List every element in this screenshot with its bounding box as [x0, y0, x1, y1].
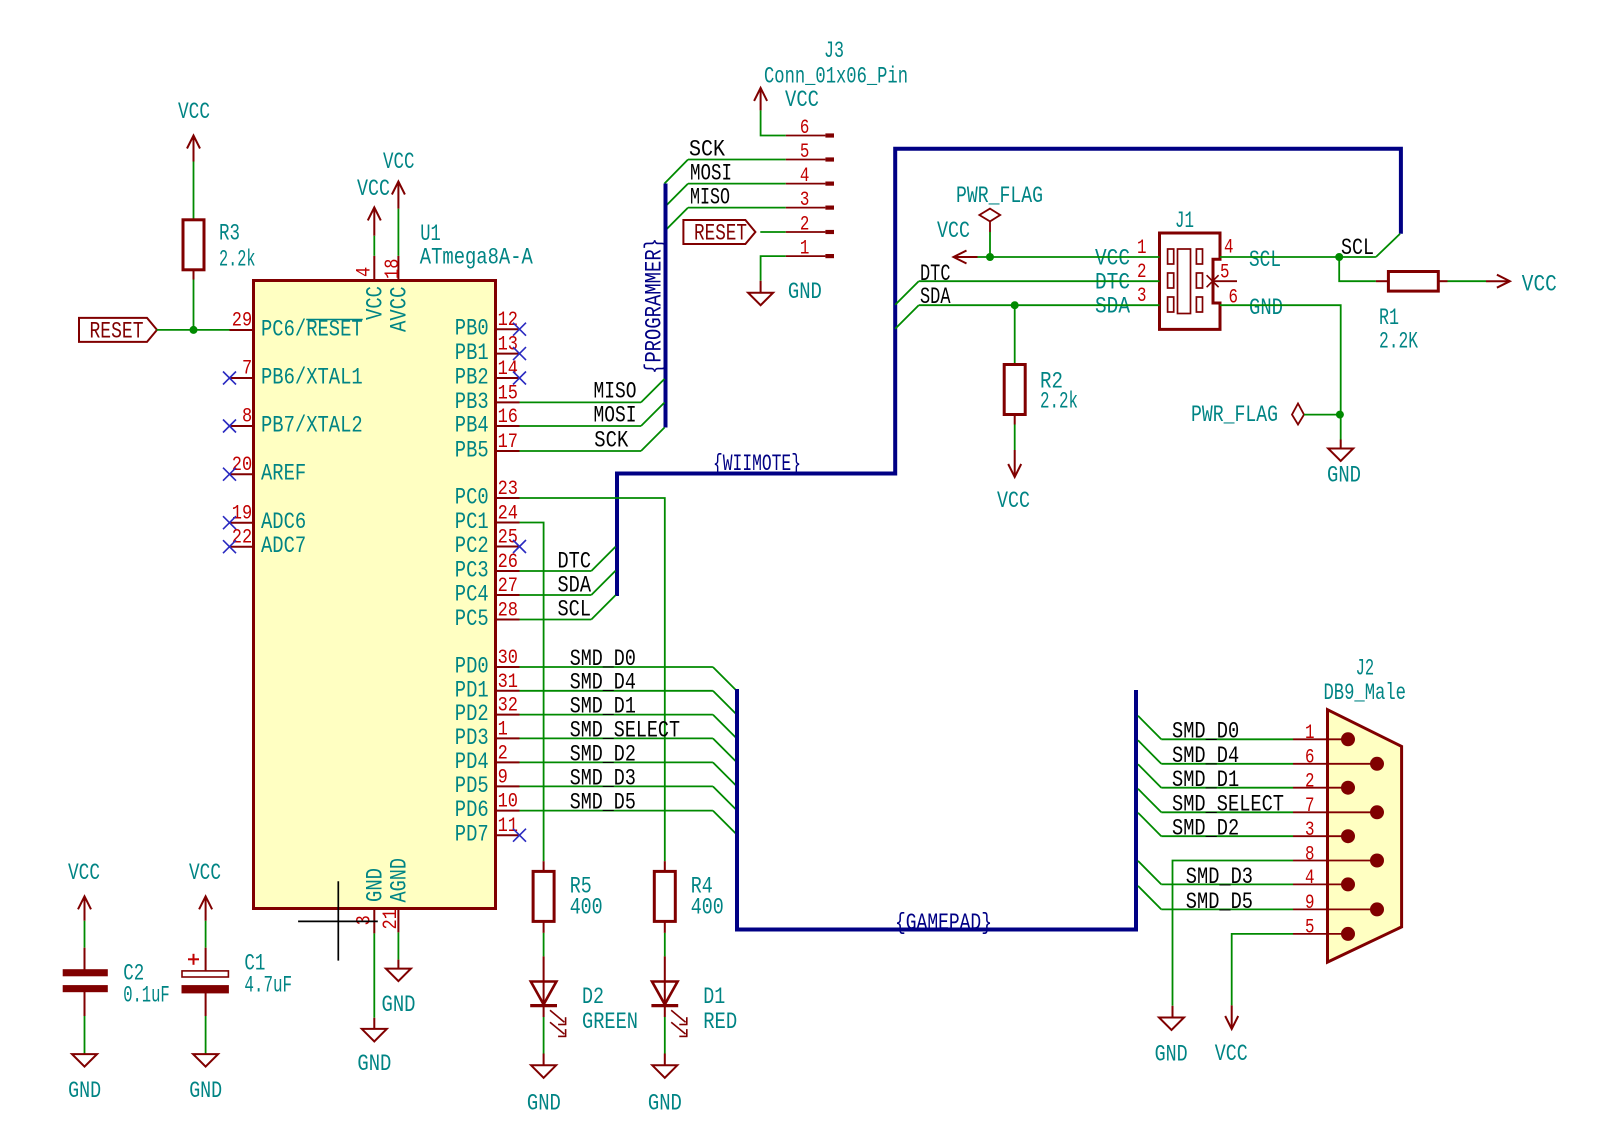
svg-text:11: 11: [498, 815, 518, 838]
svg-text:PD5: PD5: [455, 773, 489, 799]
bus entry SMD_D3 to GAMEPAD bus: [713, 786, 737, 810]
ground symbol below U1 pin 21: [386, 969, 411, 982]
R5 stubs: [543, 861, 545, 871]
svg-text:2.2K: 2.2K: [1379, 329, 1418, 355]
LED D2 symbol: [543, 956, 545, 1017]
svg-text:19: 19: [232, 502, 252, 525]
svg-text:16: 16: [498, 406, 518, 429]
power symbol VCC above pin 4: [368, 207, 381, 235]
svg-text:AREF: AREF: [261, 461, 306, 487]
bus entry SCL from WIIMOTE bus: [1376, 234, 1400, 257]
wire PD SMD_D2: [520, 761, 713, 763]
svg-text:30: 30: [498, 647, 518, 670]
svg-text:ADC6: ADC6: [261, 509, 306, 535]
wire PD SMD_SELECT: [520, 737, 713, 739]
bus entry SMD_D4 from GAMEPAD bus: [1138, 740, 1161, 764]
D1 light emission arrows: [671, 1010, 685, 1022]
J1 pin 5 no-connect stub and X: [1213, 280, 1237, 282]
svg-text:5: 5: [1305, 917, 1315, 940]
junction SCL / R1: [1335, 253, 1343, 261]
svg-text:17: 17: [498, 431, 518, 454]
R1 stubs and wire to VCC: [1438, 280, 1447, 282]
svg-text:AVCC: AVCC: [387, 287, 413, 333]
svg-text:PC0: PC0: [455, 485, 489, 511]
power symbol VCC left of junction: [954, 251, 978, 264]
svg-text:PB5: PB5: [455, 438, 489, 464]
U1 pin 22 ADC7 stub: [230, 546, 254, 548]
svg-text:GREEN: GREEN: [582, 1009, 638, 1035]
U1 pin 4 VCC stub: [373, 256, 375, 281]
wire C2 to GND: [84, 992, 86, 1016]
svg-text:2.2k: 2.2k: [1040, 389, 1078, 415]
wire PC1 to R5: [520, 523, 544, 862]
LED D1 symbol: [664, 956, 666, 1017]
svg-text:PC6/RESET: PC6/RESET: [261, 317, 363, 343]
svg-text:VCC: VCC: [937, 218, 970, 244]
J2 pin 4 contact circle: [1341, 877, 1355, 891]
power symbol VCC below J2 pin 5 (pointing down): [1225, 1005, 1238, 1029]
svg-text:21: 21: [380, 909, 403, 929]
ground symbol below J1 GND net: [1340, 440, 1342, 449]
no-connect X at U1 pin 19: [223, 516, 236, 529]
wire R4 to D1: [664, 933, 666, 957]
wire PC0 to R4: [520, 498, 665, 861]
J2 pin 8 contact circle: [1370, 854, 1384, 868]
capacitor C2 plates: [63, 970, 107, 976]
svg-text:28: 28: [498, 600, 518, 623]
svg-text:15: 15: [498, 382, 518, 405]
U1 pin 13 PB1 stub: [496, 353, 520, 355]
svg-text:VCC: VCC: [189, 860, 221, 886]
svg-text:20: 20: [232, 454, 252, 477]
U1 pin 17 PB5 stub: [496, 450, 520, 452]
J2 pin 8 line: [1293, 860, 1377, 862]
wire J3 pin 1 to GND: [761, 256, 786, 281]
svg-text:RED: RED: [703, 1009, 737, 1035]
svg-text:GND: GND: [1155, 1042, 1188, 1068]
U1 pin 19 ADC6 stub: [230, 522, 254, 524]
power symbol VCC above C1: [199, 896, 212, 921]
svg-text:{PROGRAMMER}: {PROGRAMMER}: [642, 238, 668, 374]
J2 pin 7 line: [1293, 811, 1377, 813]
resistor R5 body: [533, 871, 554, 921]
U1 pin 25 PC2 stub: [496, 546, 520, 548]
svg-text:PD2: PD2: [455, 701, 489, 727]
svg-text:MOSI: MOSI: [594, 402, 637, 428]
svg-text:GND: GND: [1249, 295, 1283, 321]
svg-text:PWR_FLAG: PWR_FLAG: [956, 183, 1043, 209]
bus entry PC4 SDA: [591, 571, 615, 595]
U1 pin 20 AREF stub: [230, 473, 254, 475]
svg-text:ADC7: ADC7: [261, 533, 306, 559]
svg-text:9: 9: [1305, 892, 1315, 915]
U1 pin 2 PD4 stub: [496, 761, 520, 763]
bus GAMEPAD: [737, 689, 1136, 930]
bus entry PC5 SCL: [591, 595, 615, 619]
svg-text:VCC: VCC: [997, 488, 1030, 514]
svg-text:SMD_D5: SMD_D5: [1186, 889, 1253, 915]
svg-text:J3: J3: [824, 38, 844, 64]
svg-text:PB3: PB3: [455, 389, 489, 415]
svg-text:2: 2: [1305, 771, 1315, 794]
no-connect X at U1 pin 11: [513, 829, 526, 842]
J2 DB9 body trapezoid: [1328, 710, 1402, 962]
svg-text:GND: GND: [68, 1078, 101, 1104]
wire VCC to C1: [205, 921, 207, 948]
bus entry SMD_D2 to GAMEPAD bus: [713, 762, 737, 786]
svg-text:VCC: VCC: [1215, 1041, 1248, 1067]
resistor R2 body: [1004, 365, 1025, 415]
svg-text:RESET: RESET: [90, 318, 144, 344]
U1 pin 3 GND stub: [373, 909, 375, 934]
svg-text:PD4: PD4: [455, 749, 489, 775]
wire PD SMD_D3: [520, 785, 713, 787]
wire SMD_D1 to J2 pin 2: [1161, 787, 1293, 789]
PWR_FLAG symbol above VCC junction: [979, 209, 1000, 232]
svg-text:D1: D1: [703, 984, 725, 1010]
bus entry SMD_D1 from GAMEPAD bus: [1138, 764, 1161, 788]
J3 pin 6 line and pad: [786, 135, 826, 137]
svg-text:PWR_FLAG: PWR_FLAG: [1191, 402, 1278, 428]
wire PB4 MOSI: [520, 425, 642, 427]
svg-text:SCK: SCK: [689, 137, 725, 163]
svg-text:9: 9: [498, 766, 508, 789]
U1 pin 24 PC1 stub: [496, 522, 520, 524]
J3 pin 5 line and pad: [786, 159, 826, 161]
wire GND from J1 pin 6: [1220, 305, 1341, 439]
wire RESET label to J3 pin 2: [760, 231, 785, 233]
svg-text:23: 23: [498, 478, 518, 501]
J3 pin 4 line and pad: [786, 183, 826, 185]
svg-text:4.7uF: 4.7uF: [244, 973, 292, 999]
resistor R3 body: [183, 220, 204, 270]
wire SCL from J1 pin 4: [1220, 256, 1376, 258]
U1 pin 31 PD1 stub: [496, 690, 520, 692]
resistor R4 body: [654, 871, 675, 921]
junction SDA / R2: [1011, 301, 1019, 309]
J2 pin 6 contact circle: [1370, 757, 1384, 771]
ground symbol below J2: [1159, 1018, 1184, 1031]
svg-text:PC4: PC4: [455, 582, 489, 608]
wire SDA from WIIMOTE bus to J1 pin 3: [919, 304, 1160, 306]
svg-text:DB9_Male: DB9_Male: [1324, 680, 1407, 706]
svg-text:R1: R1: [1379, 305, 1399, 331]
ground symbol below U1 pin 3: [362, 1029, 387, 1042]
power symbol VCC above pin 18: [392, 182, 405, 209]
svg-text:1: 1: [800, 238, 810, 261]
wire VCC to J3 pin 6: [761, 110, 786, 135]
D2 light emission arrows: [550, 1010, 564, 1022]
svg-text:4: 4: [354, 267, 377, 277]
no-connect X at U1 pin 20: [223, 468, 236, 481]
J2 pin 3 contact circle: [1341, 829, 1355, 843]
svg-text:SCL: SCL: [558, 597, 592, 623]
capacitor C1 plates: [182, 971, 228, 977]
wire VCC to pin 18: [397, 209, 399, 256]
U1 pin 15 PB3 stub: [496, 401, 520, 403]
svg-text:DTC: DTC: [1095, 270, 1130, 296]
svg-text:SMD_SELECT: SMD_SELECT: [570, 717, 680, 743]
U1 pin 8 PB7/XTAL2 stub: [230, 425, 254, 427]
IC U1 ATmega8A-A body: [254, 281, 496, 909]
power symbol VCC above J3 pin 6: [754, 88, 767, 111]
svg-text:{GAMEPAD}: {GAMEPAD}: [895, 910, 992, 936]
J2 pin 2 contact circle: [1341, 781, 1355, 795]
svg-text:PB0: PB0: [455, 316, 489, 342]
svg-text:VCC: VCC: [178, 99, 210, 125]
svg-text:SMD_D2: SMD_D2: [570, 741, 636, 767]
svg-text:3: 3: [1305, 819, 1315, 842]
svg-text:DTC: DTC: [558, 548, 592, 574]
svg-text:GND: GND: [363, 868, 389, 902]
svg-text:29: 29: [232, 310, 252, 333]
ground symbol at J3 pin 1: [748, 293, 773, 306]
wire VCC to pin 4: [373, 236, 375, 256]
svg-text:VCC: VCC: [383, 149, 415, 175]
bus entry SMD_D5 to GAMEPAD bus: [713, 811, 737, 835]
U1 pin 30 PD0 stub: [496, 666, 520, 668]
wire VCC junction to J1 pin 1: [978, 256, 1160, 258]
svg-text:SMD_D0: SMD_D0: [1172, 719, 1239, 745]
svg-text:5: 5: [800, 141, 810, 164]
svg-text:SDA: SDA: [920, 284, 951, 310]
svg-text:SMD_D1: SMD_D1: [1172, 767, 1239, 793]
U1 pin 11 PD7 stub: [496, 834, 520, 836]
bus entry SMD_SELECT from GAMEPAD bus: [1138, 789, 1161, 813]
svg-text:MOSI: MOSI: [690, 161, 732, 187]
svg-text:VCC: VCC: [363, 286, 389, 320]
bus entry SCK to PROGRAMMER bus: [665, 160, 689, 184]
power symbol VCC above C2: [78, 896, 91, 921]
bus PROGRAMMER vertical: [664, 184, 668, 428]
U1 pin 27 PC4 stub: [496, 594, 520, 596]
svg-text:3: 3: [800, 189, 810, 212]
U1 pin 21 AGND stub: [397, 909, 399, 933]
svg-text:SMD_D3: SMD_D3: [570, 765, 636, 791]
svg-text:27: 27: [498, 575, 518, 598]
svg-text:Conn_01x06_Pin: Conn_01x06_Pin: [764, 64, 908, 90]
svg-text:10: 10: [498, 791, 518, 814]
U1 pin 14 PB2 stub: [496, 377, 520, 379]
J3 pin 1 line and pad: [786, 255, 826, 257]
ground symbol below D1: [652, 1065, 677, 1078]
J3 pin 2 line and pad: [786, 231, 826, 233]
wire SMD_D4 to J2 pin 6: [1161, 763, 1293, 765]
svg-text:13: 13: [498, 334, 518, 357]
U1 pin 28 PC5 stub: [496, 619, 520, 621]
global label RESET at left: [79, 318, 157, 342]
svg-text:U1: U1: [420, 221, 441, 247]
svg-text:PB7/XTAL2: PB7/XTAL2: [261, 413, 363, 439]
svg-text:SCL: SCL: [1341, 235, 1374, 261]
J2 pin 6 line: [1293, 763, 1377, 765]
U1 pin 10 PD6 stub: [496, 810, 520, 812]
svg-text:8: 8: [242, 406, 252, 429]
U1 pin 18 AVCC stub: [397, 256, 399, 281]
ground symbol below D2: [531, 1065, 556, 1078]
svg-text:1: 1: [498, 718, 508, 741]
svg-text:SMD_D0: SMD_D0: [570, 646, 636, 672]
wire PC3 DTC: [520, 570, 592, 572]
svg-text:RESET: RESET: [694, 221, 747, 247]
svg-text:GND: GND: [788, 279, 822, 305]
svg-text:J1: J1: [1175, 208, 1194, 234]
svg-text:SDA: SDA: [558, 572, 592, 598]
svg-text:2: 2: [498, 742, 508, 765]
no-connect X at U1 pin 8: [223, 420, 236, 433]
svg-text:GND: GND: [648, 1090, 682, 1116]
bus entry SMD_D5 from GAMEPAD bus: [1138, 886, 1161, 910]
wire SMD_D3 to J2 pin 4: [1161, 883, 1293, 885]
svg-text:25: 25: [498, 527, 518, 550]
svg-text:PC1: PC1: [455, 509, 489, 535]
svg-text:0.1uF: 0.1uF: [123, 983, 170, 1009]
U1 pin 32 PD2 stub: [496, 714, 520, 716]
bus entry SMD_D2 from GAMEPAD bus: [1138, 813, 1161, 837]
J1 inner graphic rectangles: [1168, 249, 1174, 264]
svg-text:18: 18: [382, 259, 405, 279]
svg-text:4: 4: [1305, 867, 1315, 890]
R4 stubs: [664, 861, 666, 871]
global label RESET at J3 pin 2: [683, 220, 755, 244]
U1 pin 7 PB6/XTAL1 stub: [230, 377, 254, 379]
U1 pin 1 PD3 stub: [496, 737, 520, 739]
svg-text:7: 7: [242, 358, 252, 381]
connector J1 body with notch: [1160, 233, 1221, 329]
bus entry SMD_D0 to GAMEPAD bus: [713, 667, 737, 691]
svg-text:PD3: PD3: [455, 725, 489, 751]
J2 pin 9 line: [1293, 908, 1377, 910]
bus entry MISO to PROGRAMMER bus: [665, 208, 689, 232]
svg-text:PD6: PD6: [455, 797, 489, 823]
U1 pin 23 PC0 stub: [496, 497, 520, 499]
wire VCC to C2: [84, 921, 86, 948]
no-connect X at U1 pin 14: [513, 372, 526, 385]
bus entry MOSI to PROGRAMMER bus: [665, 184, 689, 208]
U1 pin 12 PB0 stub: [496, 328, 520, 330]
svg-text:VCC: VCC: [357, 176, 390, 202]
wire SMD_SELECT to J2 pin 7: [1161, 811, 1293, 813]
svg-text:SMD_D5: SMD_D5: [570, 790, 636, 816]
svg-text:SMD_D4: SMD_D4: [570, 670, 636, 696]
bus entry SMD_D3 from GAMEPAD bus: [1138, 861, 1161, 885]
svg-text:PB2: PB2: [455, 365, 489, 391]
svg-text:1: 1: [1305, 722, 1315, 745]
no-connect X at U1 pin 12: [513, 323, 526, 336]
bus entry PB4 MOSI: [641, 403, 665, 427]
svg-text:VCC: VCC: [785, 87, 819, 113]
J2 pin 4 line: [1293, 883, 1348, 885]
svg-text:3: 3: [353, 915, 376, 925]
wire PC4 SDA: [520, 594, 592, 596]
svg-text:VCC: VCC: [1522, 272, 1557, 298]
U1 pin 9 PD5 stub: [496, 785, 520, 787]
wire PB5 SCK: [520, 450, 642, 452]
svg-text:ATmega8A-A: ATmega8A-A: [420, 245, 533, 271]
wire R2 to VCC arrow: [1014, 415, 1016, 425]
junction VCC / PWR_FLAG: [986, 253, 994, 261]
svg-text:PB4: PB4: [455, 413, 489, 439]
wire pin 3 to GND symbol: [373, 933, 375, 1017]
svg-text:6: 6: [800, 117, 810, 140]
svg-text:PB1: PB1: [455, 340, 489, 366]
J2 pin 2 line: [1293, 787, 1348, 789]
J2 pin 7 contact circle: [1370, 805, 1384, 819]
wire SMD_D0 to J2 pin 1: [1161, 738, 1293, 740]
bus entry SMD_SELECT to GAMEPAD bus: [713, 738, 737, 762]
svg-text:AGND: AGND: [386, 858, 412, 903]
C1 plus sign: [188, 958, 199, 960]
wire PD SMD_D1: [520, 714, 713, 716]
svg-text:VCC: VCC: [68, 860, 100, 886]
svg-text:12: 12: [498, 309, 518, 332]
J2 pin 1 line: [1293, 738, 1348, 740]
J2 pin 9 contact circle: [1370, 902, 1384, 916]
svg-text:SMD_D4: SMD_D4: [1172, 743, 1239, 769]
ground symbol below C1: [193, 1054, 218, 1067]
svg-text:GND: GND: [1327, 463, 1361, 489]
wire D1 to GND: [664, 1017, 666, 1054]
svg-text:SCK: SCK: [594, 427, 628, 453]
svg-text:7: 7: [1305, 795, 1315, 818]
svg-text:PD1: PD1: [455, 677, 489, 703]
svg-text:32: 32: [498, 695, 518, 718]
svg-text:PD0: PD0: [455, 654, 489, 680]
wire DTC from WIIMOTE bus to J1 pin 2: [919, 280, 1160, 282]
wire PB3 MISO: [520, 401, 642, 403]
junction at RESET / R3: [190, 326, 198, 334]
power symbol VCC right of R1: [1486, 275, 1510, 288]
junction GND / PWR_FLAG: [1336, 411, 1344, 419]
ground symbol below C2: [72, 1054, 97, 1067]
svg-text:GND: GND: [382, 992, 416, 1018]
wire pin 21 to GND symbol: [397, 932, 399, 959]
bus entry PB3 MISO: [641, 379, 665, 403]
svg-text:PD7: PD7: [455, 822, 489, 848]
svg-text:R3: R3: [219, 221, 240, 247]
power symbol VCC above R3: [187, 136, 200, 162]
svg-text:MISO: MISO: [594, 379, 637, 405]
svg-text:26: 26: [498, 551, 518, 574]
J2 pin 1 contact circle: [1341, 732, 1355, 746]
svg-text:SMD_D3: SMD_D3: [1186, 864, 1253, 890]
wire J2 pin 8 to GND: [1173, 861, 1294, 1006]
no-connect X at U1 pin 22: [223, 540, 236, 553]
svg-text:6: 6: [1305, 747, 1315, 770]
svg-text:22: 22: [232, 526, 252, 549]
svg-text:400: 400: [570, 895, 603, 921]
wire SMD_D5 to J2 pin 9: [1161, 908, 1293, 910]
wire PC5 SCL: [520, 619, 592, 621]
svg-text:4: 4: [800, 165, 810, 188]
black origin crosshair near U1 bottom: [337, 881, 339, 960]
svg-text:2.2k: 2.2k: [219, 247, 256, 273]
svg-text:SMD_D1: SMD_D1: [570, 694, 636, 720]
power symbol VCC below R2 (pointing down): [1008, 450, 1021, 477]
overline on RESET part of PC6/RESET: [306, 319, 363, 321]
bus WIIMOTE: [617, 149, 1401, 596]
svg-text:SMD_SELECT: SMD_SELECT: [1172, 792, 1284, 818]
svg-text:PC3: PC3: [455, 558, 489, 584]
svg-text:PC2: PC2: [455, 533, 489, 559]
U1 pin 26 PC3 stub: [496, 570, 520, 572]
svg-text:D2: D2: [582, 984, 604, 1010]
wire R3 to RESET junction: [193, 270, 195, 280]
J2 pin 5 line: [1293, 933, 1348, 935]
wire SDA junction down to R2: [1014, 305, 1016, 364]
resistor R1 body (horizontal): [1388, 272, 1438, 292]
svg-text:MISO: MISO: [690, 185, 730, 211]
